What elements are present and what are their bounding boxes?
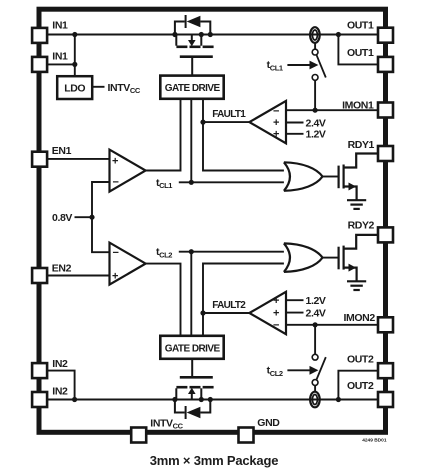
comparator U1 (EN1) <box>110 150 146 192</box>
pin IMON2 <box>378 317 393 332</box>
pin OUT1 (1) <box>378 28 393 43</box>
node tCL2 junction <box>189 249 194 254</box>
pin IN2 (1) <box>32 363 47 378</box>
wire comparator U2 output to gate drive <box>146 264 181 336</box>
node OUT1 junction <box>336 32 341 37</box>
wire OR2 output <box>322 257 337 259</box>
pin OUT2 (2) <box>378 392 393 407</box>
transistor Q2 (bottom pass MOSFET with body diode) <box>175 359 214 419</box>
node Q1 source <box>199 32 204 37</box>
node FAULT1 junction <box>200 120 205 125</box>
wire OR1 output <box>322 176 337 178</box>
transistor Q4 (RDY2 open-drain) <box>339 235 378 281</box>
svg-text:RDY2: RDY2 <box>348 220 375 232</box>
current sense S1 (top) <box>310 27 320 43</box>
svg-text:EN1: EN1 <box>52 145 72 157</box>
wire FAULT2 2.4V stub <box>286 312 304 314</box>
pin EN1 <box>32 152 47 167</box>
node IN1 junction B <box>72 62 77 67</box>
node Q1 body diode <box>208 32 213 37</box>
switch tCL1 <box>312 42 326 110</box>
wire FAULT2 bus <box>203 264 284 336</box>
arrow tCL2 actuation <box>287 366 318 375</box>
wire reference bus vertical <box>92 182 109 252</box>
pin OUT2 (1) <box>378 363 393 378</box>
svg-text:2.4V: 2.4V <box>306 117 326 129</box>
pin IN1 (2) <box>32 57 47 72</box>
svg-text:IMON2: IMON2 <box>344 312 376 324</box>
wire EN1 input <box>48 158 110 160</box>
svg-text:FAULT2: FAULT2 <box>212 300 246 311</box>
wire FAULT1 bus <box>203 99 284 171</box>
wire FAULT2 minus input to IMON2 line <box>286 324 378 326</box>
wire 0.8V reference <box>75 216 93 218</box>
svg-text:GATE DRIVE: GATE DRIVE <box>165 343 221 354</box>
wire LDO output to INTVCC label <box>92 86 104 88</box>
node Q1 drain <box>172 32 177 37</box>
node OUT2 junction <box>336 397 341 402</box>
svg-text:RDY1: RDY1 <box>348 139 375 151</box>
node IMON1 junction <box>313 108 318 113</box>
svg-text:4249 BD01: 4249 BD01 <box>362 437 387 443</box>
svg-text:tCL2: tCL2 <box>156 246 172 259</box>
svg-text:−: − <box>113 177 119 189</box>
svg-text:IN2: IN2 <box>52 385 68 397</box>
switch tCL2 <box>312 325 326 393</box>
svg-text:LDO: LDO <box>64 82 85 94</box>
node 0.8V junction <box>89 215 94 220</box>
svg-text:3mm × 3mm Package: 3mm × 3mm Package <box>150 453 279 468</box>
comparator FAULT1 (points left) <box>249 101 286 143</box>
wire tCL1 <box>179 181 284 183</box>
ground (RDY2 source) <box>347 281 366 290</box>
node IMON2 junction <box>313 322 318 327</box>
svg-text:EN2: EN2 <box>52 263 72 275</box>
svg-text:0.8V: 0.8V <box>52 212 72 224</box>
pin IMON1 <box>378 103 393 118</box>
wire OUT1 branch <box>338 35 377 65</box>
svg-text:IN2: IN2 <box>52 358 68 370</box>
GATE DRIVE box (top) <box>160 76 223 99</box>
transistor Q3 (RDY1 open-drain) <box>339 154 378 200</box>
node FAULT2 junction <box>200 310 205 315</box>
GATE DRIVE box (bottom) <box>160 336 223 359</box>
svg-text:INTVCC: INTVCC <box>108 82 141 95</box>
wire IN2 main rail (bottom) <box>48 399 378 401</box>
pin IN2 (2) <box>32 392 47 407</box>
svg-text:+: + <box>112 270 118 282</box>
wire FAULT1 1.2V stub <box>286 133 304 135</box>
svg-text:tCL1: tCL1 <box>156 177 172 190</box>
OR gate G2 (RDY2) <box>284 243 323 272</box>
arrow tCL1 actuation <box>287 61 318 70</box>
svg-text:IMON1: IMON1 <box>342 99 374 111</box>
node Q2 body diode <box>208 397 213 402</box>
wire comparator U1 output to gate drive <box>146 99 181 171</box>
svg-text:−: − <box>273 105 279 117</box>
wire tCL2 <box>179 251 284 253</box>
LDO box <box>57 76 92 99</box>
pin GND <box>239 428 254 443</box>
wire IN2 pin upper stub <box>48 371 75 400</box>
svg-text:+: + <box>273 129 279 141</box>
comparator FAULT2 (points left) <box>249 292 286 334</box>
pin RDY1 <box>378 146 393 161</box>
svg-text:+: + <box>273 307 279 319</box>
pin EN2 <box>32 268 47 283</box>
node Q2 drain <box>172 397 177 402</box>
svg-text:tCL2: tCL2 <box>267 365 283 378</box>
svg-text:IN1: IN1 <box>52 50 68 62</box>
wire IN1 main rail (top) <box>48 34 378 36</box>
node tCL1 junction <box>189 180 194 185</box>
wire FAULT1 2.4V stub <box>286 122 304 124</box>
wire tCL2 from gate drive <box>190 252 192 336</box>
svg-text:−: − <box>113 247 119 259</box>
ground (RDY1 source) <box>347 200 366 209</box>
wire FAULT2 comparator branch <box>203 312 249 314</box>
svg-text:1.2V: 1.2V <box>306 129 326 141</box>
wire FAULT2 1.2V stub <box>286 299 304 301</box>
pin INTVCC <box>131 428 146 443</box>
OR gate G1 (RDY1) <box>284 162 323 191</box>
svg-text:tCL1: tCL1 <box>267 59 283 72</box>
wire tCL1 from gate drive <box>190 99 192 183</box>
node Q2 source <box>199 397 204 402</box>
IC outline <box>39 9 386 432</box>
node IN2 junction <box>72 397 77 402</box>
svg-text:−: − <box>273 319 279 331</box>
svg-text:1.2V: 1.2V <box>306 295 326 307</box>
svg-text:+: + <box>273 117 279 129</box>
svg-text:FAULT1: FAULT1 <box>212 109 246 120</box>
wire IN1 pin2 stub <box>48 63 75 65</box>
current sense S2 (bottom) <box>310 392 320 408</box>
svg-text:GATE DRIVE: GATE DRIVE <box>165 83 221 94</box>
svg-text:GND: GND <box>257 417 280 429</box>
wire LDO feed <box>74 35 76 77</box>
svg-text:OUT1: OUT1 <box>347 20 374 32</box>
wire FAULT1 comparator branch <box>203 121 249 123</box>
svg-text:OUT2: OUT2 <box>347 380 374 392</box>
svg-text:OUT2: OUT2 <box>347 353 374 365</box>
svg-text:INTVCC: INTVCC <box>150 418 183 431</box>
svg-text:2.4V: 2.4V <box>306 307 326 319</box>
pin OUT1 (2) <box>378 57 393 72</box>
node IN1 junction A <box>72 32 77 37</box>
wire FAULT1 minus input to IMON1 line <box>286 109 378 111</box>
pin RDY2 <box>378 227 393 242</box>
wire EN2 input <box>48 275 110 277</box>
svg-text:OUT1: OUT1 <box>347 47 374 59</box>
svg-text:IN1: IN1 <box>52 20 68 32</box>
wire OUT2 branch <box>338 371 377 400</box>
pin IN1 (1) <box>32 28 47 43</box>
comparator U2 (EN2) <box>110 243 146 285</box>
svg-text:+: + <box>273 295 279 307</box>
svg-text:+: + <box>112 156 118 168</box>
transistor Q1 (top pass MOSFET with body diode) <box>175 15 214 76</box>
